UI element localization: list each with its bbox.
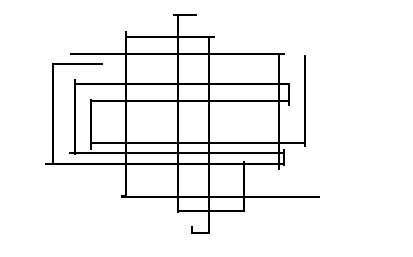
wire vertical x74: [74, 79, 76, 155]
wire horizontal y36: [125, 36, 215, 38]
wire horizontal y163: [45, 163, 285, 165]
wire vertical x242: [243, 161, 245, 212]
wire start bump y195: [121, 195, 126, 197]
wire vertical x303: [304, 55, 306, 147]
wire hook vertical x287: [288, 83, 290, 106]
wire horizontal y210: [177, 210, 245, 212]
wire horizontal y53: [70, 53, 285, 55]
wire center vertical stem: [177, 14, 179, 213]
wire top T-bar horizontal: [173, 14, 197, 16]
wire vertical x208: [208, 36, 210, 234]
wire vertical x125: [125, 31, 127, 198]
wire horizontal y63 short: [52, 63, 103, 65]
wire vertical x91: [90, 99, 92, 150]
wire vertical x279: [278, 53, 280, 170]
wire foot horizontal y232: [191, 232, 210, 234]
wire horizontal y100: [90, 100, 290, 102]
wire horizontal y152: [69, 152, 285, 154]
wire up-tick x191: [191, 226, 193, 234]
wire horizontal y83: [74, 83, 290, 85]
wire horizontal y141: [90, 142, 306, 144]
wire bracket vertical x283: [283, 149, 285, 166]
wire horizontal y196 long: [121, 196, 320, 198]
wire vertical x51: [52, 63, 54, 165]
